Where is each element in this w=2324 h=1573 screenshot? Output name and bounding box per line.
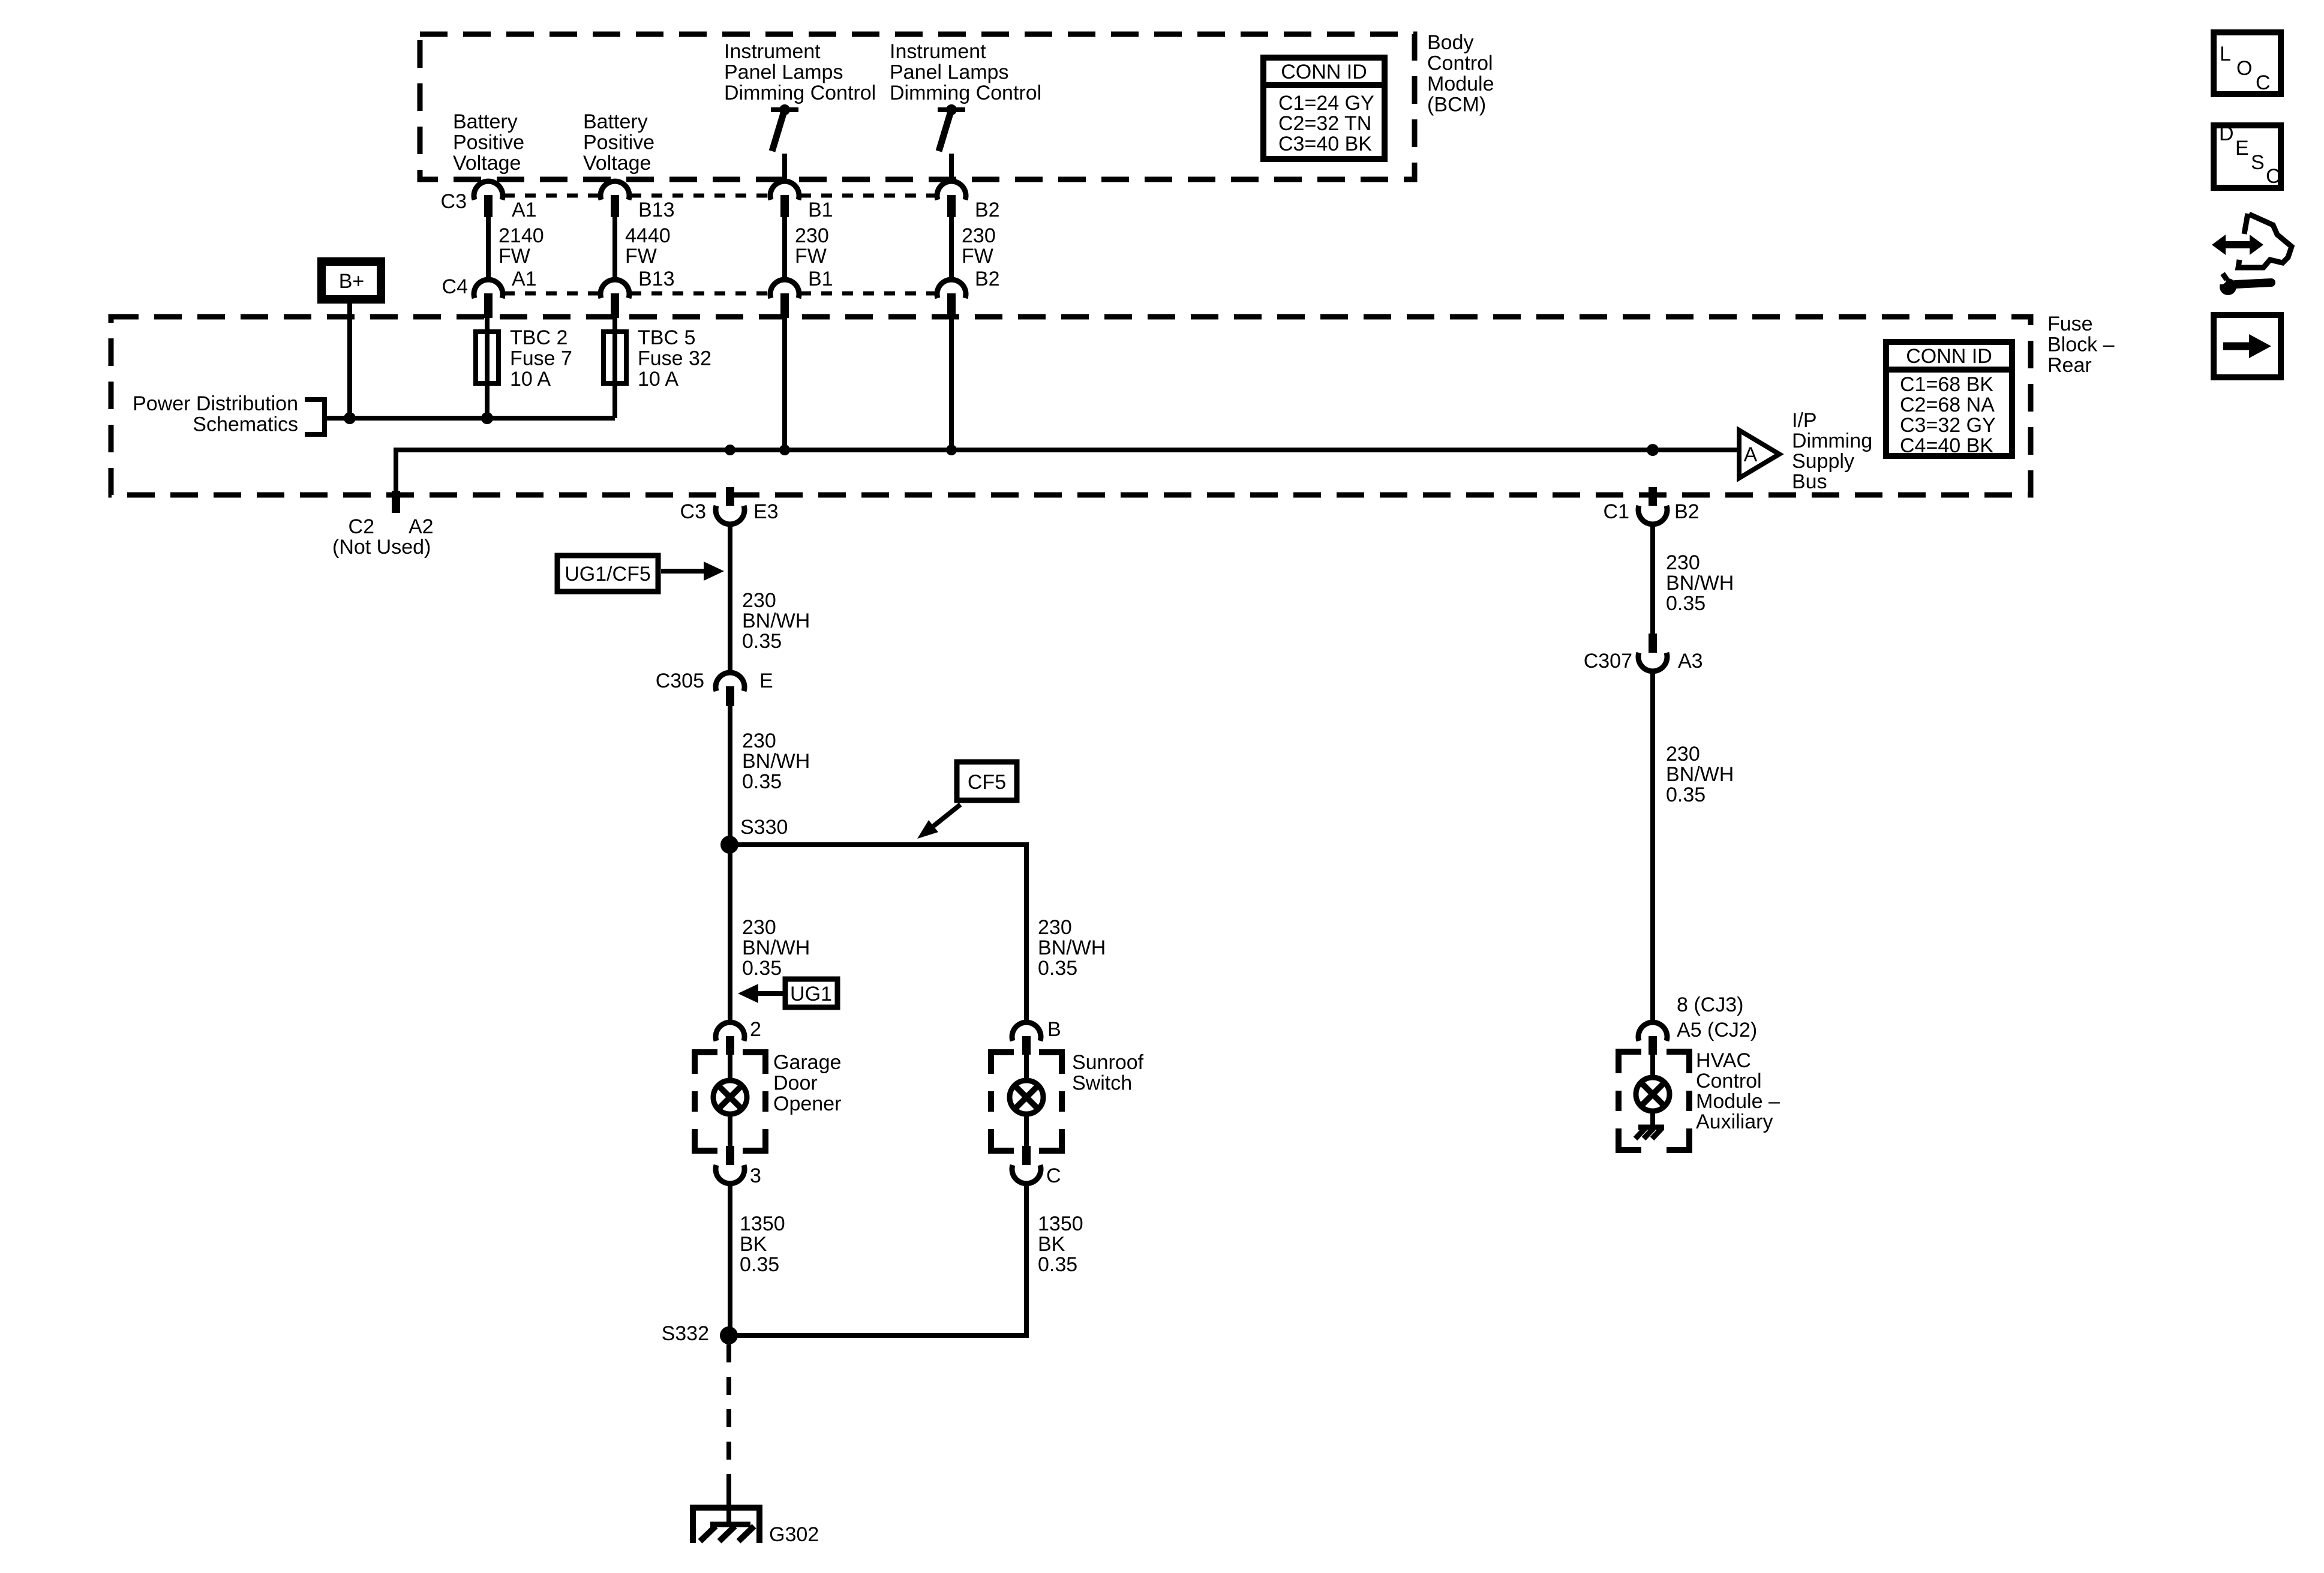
svg-text:230: 230 bbox=[1666, 743, 1700, 766]
svg-text:C3: C3 bbox=[680, 500, 706, 523]
UG1/CF5 reference box bbox=[557, 556, 658, 592]
wire label 230 BN/WH 0.35 (garage) bbox=[742, 916, 810, 980]
svg-text:C4=40 BK: C4=40 BK bbox=[1900, 434, 1993, 457]
svg-text:0.35: 0.35 bbox=[1038, 957, 1077, 980]
connector row2 B13 bbox=[600, 280, 629, 318]
svg-text:Supply: Supply bbox=[1792, 450, 1854, 473]
label S330 bbox=[740, 816, 788, 839]
label Battery Positive Voltage (left) bbox=[453, 110, 524, 175]
pin C2/A2 not used bbox=[392, 491, 400, 513]
DESC letters bbox=[2219, 122, 2281, 188]
fuse block CONN ID text bbox=[1900, 345, 1996, 457]
svg-text:Switch: Switch bbox=[1072, 1072, 1132, 1095]
svg-text:Voltage: Voltage bbox=[453, 152, 521, 175]
svg-text:A1: A1 bbox=[512, 199, 537, 221]
svg-text:230: 230 bbox=[1038, 916, 1072, 939]
svg-text:FW: FW bbox=[625, 245, 657, 268]
CF5 text bbox=[968, 771, 1006, 794]
dimmer switch symbol 1 bbox=[771, 104, 798, 182]
svg-text:S330: S330 bbox=[740, 816, 788, 839]
connector row1 B13 bbox=[600, 181, 629, 217]
label C1 B2 bbox=[1604, 500, 1700, 523]
fuse TBC 5 Fuse 32 10 A bbox=[603, 332, 626, 383]
S330 branch wire to sunroof bbox=[729, 845, 1026, 1022]
wire B2 to dimming bus bbox=[949, 318, 954, 450]
svg-text:1350: 1350 bbox=[1038, 1212, 1083, 1235]
svg-text:10 A: 10 A bbox=[638, 368, 678, 391]
svg-text:Module: Module bbox=[1427, 73, 1494, 95]
svg-text:C2=68 NA: C2=68 NA bbox=[1900, 394, 1995, 416]
label 8 (CJ3) A5 (CJ2) bbox=[1677, 993, 1757, 1041]
svg-text:C305: C305 bbox=[656, 670, 704, 692]
wire garage lamp to pin 3 bbox=[728, 1114, 732, 1147]
svg-text:HVAC: HVAC bbox=[1696, 1049, 1751, 1072]
fuse block CONN ID divider bbox=[1883, 367, 2015, 373]
UG1 text bbox=[790, 983, 832, 1005]
junction dot B+ feed bbox=[344, 412, 356, 424]
wire from B+ down bbox=[347, 304, 352, 418]
UG1/CF5 text bbox=[565, 563, 651, 586]
junction dot B1 bus bbox=[779, 445, 790, 455]
wire label 1350 BK 0.35 (sunroof) bbox=[1038, 1212, 1083, 1276]
UG1 reference box bbox=[785, 979, 837, 1007]
wire sunroof lamp to pin C bbox=[1024, 1114, 1029, 1147]
pin C1 at fuse block exit bbox=[1649, 487, 1657, 506]
wire 3 to S332 bbox=[728, 1184, 732, 1335]
svg-text:CONN ID: CONN ID bbox=[1906, 345, 1992, 368]
svg-text:C1=68 BK: C1=68 BK bbox=[1900, 373, 1993, 396]
svg-text:G302: G302 bbox=[769, 1523, 819, 1546]
wire A1 row1-row2 bbox=[486, 217, 491, 280]
svg-text:B+: B+ bbox=[339, 270, 365, 293]
svg-text:0.35: 0.35 bbox=[742, 770, 782, 793]
ground lead wire bbox=[726, 1488, 731, 1526]
garage door opener dashed box bbox=[695, 1052, 765, 1151]
sunroof switch dashed box bbox=[991, 1052, 1062, 1151]
connector row2 B2 bbox=[937, 280, 966, 318]
svg-text:Power Distribution: Power Distribution bbox=[133, 392, 298, 415]
svg-text:Panel Lamps: Panel Lamps bbox=[724, 61, 843, 84]
HVAC control module dashed box bbox=[1619, 1052, 1689, 1150]
svg-text:FW: FW bbox=[795, 245, 827, 268]
wire label 1350 BK 0.35 (garage) bbox=[740, 1212, 785, 1276]
svg-text:0.35: 0.35 bbox=[742, 630, 782, 653]
row2 pin labels bbox=[442, 268, 1000, 298]
wire into sunroof lamp bbox=[1024, 1055, 1029, 1080]
wire label 4440 FW bbox=[625, 224, 671, 268]
svg-text:B2: B2 bbox=[975, 268, 1000, 290]
connector 2 (garage door opener) bbox=[716, 1022, 744, 1055]
svg-text:C2: C2 bbox=[349, 515, 374, 538]
svg-text:C: C bbox=[1046, 1164, 1061, 1187]
wire B13 row1-row2 bbox=[612, 217, 617, 280]
svg-text:A1: A1 bbox=[512, 268, 537, 290]
svg-text:C: C bbox=[2256, 71, 2271, 94]
wire into HVAC lamp bbox=[1650, 1055, 1655, 1078]
svg-text:C1=24 GY: C1=24 GY bbox=[1278, 92, 1374, 115]
svg-text:B1: B1 bbox=[808, 268, 833, 290]
svg-text:Opener: Opener bbox=[773, 1092, 841, 1115]
svg-text:0.35: 0.35 bbox=[1666, 784, 1706, 806]
wire label 230 FW (B2) bbox=[962, 224, 996, 268]
svg-text:230: 230 bbox=[795, 224, 829, 247]
svg-text:0.35: 0.35 bbox=[1038, 1253, 1077, 1276]
B+ box bbox=[322, 262, 381, 299]
svg-text:C3: C3 bbox=[441, 190, 467, 213]
label 2 bbox=[750, 1018, 761, 1041]
wire C305 to S330 bbox=[728, 706, 732, 845]
svg-text:Instrument: Instrument bbox=[890, 40, 986, 63]
svg-text:C3=40 BK: C3=40 BK bbox=[1278, 133, 1372, 155]
CF5 arrow bbox=[917, 804, 960, 839]
svg-text:4440: 4440 bbox=[625, 224, 671, 247]
LOC letters bbox=[2220, 43, 2271, 94]
svg-text:BN/WH: BN/WH bbox=[1666, 763, 1734, 786]
wire label 230 BN/WH 0.35 (right upper) bbox=[1666, 551, 1734, 615]
dimmer switch symbol 2 bbox=[938, 104, 965, 182]
svg-text:B1: B1 bbox=[808, 199, 833, 221]
BCM connector row 1 dashed line bbox=[504, 194, 936, 198]
wire HVAC lamp to ground bbox=[1650, 1111, 1655, 1127]
svg-text:Dimming: Dimming bbox=[1792, 430, 1872, 452]
fuse TBC 2 Fuse 7 10 A bbox=[476, 332, 499, 383]
wire label 230 BN/WH 0.35 (mid left) bbox=[742, 730, 810, 793]
connector C305/E bbox=[716, 673, 744, 706]
svg-text:2: 2 bbox=[750, 1018, 761, 1041]
svg-text:Voltage: Voltage bbox=[583, 152, 651, 175]
svg-text:D: D bbox=[2219, 122, 2234, 145]
label A in triangle bbox=[1744, 443, 1758, 466]
label HVAC Control Module Auxiliary bbox=[1696, 1049, 1780, 1133]
B+ label bbox=[339, 270, 365, 293]
svg-text:C4: C4 bbox=[442, 275, 468, 298]
label Fuse Block Rear bbox=[2047, 313, 2115, 377]
svg-text:Schematics: Schematics bbox=[193, 413, 298, 436]
svg-text:UG1: UG1 bbox=[790, 983, 832, 1005]
svg-text:FW: FW bbox=[962, 245, 993, 268]
svg-text:B: B bbox=[1047, 1018, 1061, 1041]
svg-text:Bus: Bus bbox=[1792, 470, 1827, 493]
LOC icon box bbox=[2214, 32, 2281, 94]
svg-text:Battery: Battery bbox=[583, 110, 648, 133]
svg-text:10 A: 10 A bbox=[510, 368, 551, 391]
BCM CONN ID text bbox=[1278, 61, 1374, 155]
wire C to S332 bbox=[729, 1184, 1026, 1335]
svg-text:Sunroof: Sunroof bbox=[1072, 1051, 1144, 1074]
svg-text:B13: B13 bbox=[638, 199, 675, 221]
sunroof connector C bbox=[1012, 1146, 1041, 1184]
svg-text:Garage: Garage bbox=[773, 1051, 841, 1074]
wire E3 to C305 bbox=[728, 525, 732, 673]
wire C1 to C307 bbox=[1650, 525, 1655, 634]
Body Control Module (BCM) dashed box bbox=[420, 34, 1415, 179]
svg-text:C3=32 GY: C3=32 GY bbox=[1900, 414, 1996, 437]
sunroof lamp symbol bbox=[1010, 1080, 1043, 1114]
svg-text:230: 230 bbox=[1666, 551, 1700, 574]
connector row1 B1 bbox=[770, 181, 799, 217]
svg-text:Auxiliary: Auxiliary bbox=[1696, 1110, 1773, 1133]
svg-text:C: C bbox=[2266, 165, 2281, 188]
svg-text:Control: Control bbox=[1427, 52, 1493, 75]
svg-text:Rear: Rear bbox=[2047, 354, 2092, 377]
triangle A (I/P dimming supply bus) bbox=[1739, 430, 1779, 478]
splice S330 bbox=[720, 836, 738, 854]
svg-text:B2: B2 bbox=[975, 199, 1000, 221]
svg-text:Fuse: Fuse bbox=[2047, 313, 2093, 335]
label 3 bbox=[750, 1164, 761, 1187]
wire B1 to dimming bus bbox=[782, 318, 787, 450]
svg-text:A5 (CJ2): A5 (CJ2) bbox=[1677, 1019, 1757, 1041]
service icon wrench bbox=[2217, 274, 2271, 295]
service icon panel outline bbox=[2238, 214, 2292, 268]
I/P dimming supply bus wire bbox=[396, 450, 1737, 506]
Fuse Block Rear dashed box bbox=[111, 317, 2031, 495]
pin E3 at fuse block exit bbox=[726, 487, 734, 506]
connector C1/B2 cup bbox=[1638, 506, 1667, 524]
svg-text:Fuse 7: Fuse 7 bbox=[510, 347, 572, 370]
wire B2 row1-row2 bbox=[949, 217, 954, 280]
HVAC internal ground bbox=[1635, 1127, 1664, 1139]
svg-text:S: S bbox=[2251, 151, 2265, 174]
svg-text:C1: C1 bbox=[1604, 500, 1629, 523]
junction dot bus at E3 branch bbox=[725, 445, 735, 455]
svg-text:FW: FW bbox=[499, 245, 530, 268]
svg-text:3: 3 bbox=[750, 1164, 761, 1187]
svg-text:Instrument: Instrument bbox=[724, 40, 821, 63]
label C305 E bbox=[656, 670, 773, 692]
HVAC lamp symbol bbox=[1636, 1077, 1670, 1111]
svg-text:I/P: I/P bbox=[1792, 409, 1817, 432]
junction dot B2 bus bbox=[946, 445, 957, 455]
HVAC connector A5 bbox=[1638, 1022, 1667, 1055]
wire C307 to HVAC bbox=[1650, 672, 1655, 1022]
svg-text:BK: BK bbox=[1038, 1233, 1065, 1256]
svg-text:O: O bbox=[2236, 57, 2252, 80]
svg-text:230: 230 bbox=[962, 224, 996, 247]
svg-text:A: A bbox=[1744, 443, 1758, 466]
svg-text:Door: Door bbox=[773, 1072, 818, 1095]
UG1/CF5 arrow bbox=[661, 562, 724, 581]
label C307 A3 bbox=[1584, 650, 1703, 673]
svg-text:Block –: Block – bbox=[2047, 334, 2115, 356]
svg-text:2140: 2140 bbox=[499, 224, 544, 247]
svg-text:Battery: Battery bbox=[453, 110, 518, 133]
svg-text:A2: A2 bbox=[409, 515, 434, 538]
label B bbox=[1047, 1018, 1061, 1041]
service icon double arrow bbox=[2212, 235, 2263, 255]
wire label 230 BN/WH 0.35 (upper left) bbox=[742, 589, 810, 653]
svg-text:L: L bbox=[2220, 43, 2231, 65]
svg-text:Body: Body bbox=[1427, 31, 1474, 54]
svg-text:S332: S332 bbox=[662, 1322, 709, 1345]
svg-text:Module –: Module – bbox=[1696, 1090, 1780, 1113]
svg-text:Control: Control bbox=[1696, 1070, 1762, 1092]
label C bbox=[1046, 1164, 1061, 1187]
svg-text:(Not Used): (Not Used) bbox=[332, 536, 431, 559]
svg-text:Fuse 32: Fuse 32 bbox=[638, 347, 711, 370]
label Instrument Panel Lamps Dimming Control (right) bbox=[890, 40, 1041, 104]
dashed ground wire bbox=[726, 1344, 731, 1488]
svg-text:TBC 5: TBC 5 bbox=[638, 326, 695, 349]
row1 pin labels bbox=[441, 190, 1000, 221]
label I/P Dimming Supply Bus bbox=[1792, 409, 1872, 493]
svg-text:230: 230 bbox=[742, 730, 776, 752]
svg-text:E3: E3 bbox=[753, 500, 779, 523]
label G302 bbox=[769, 1523, 819, 1546]
svg-text:BN/WH: BN/WH bbox=[1038, 936, 1106, 959]
label Body Control Module (BCM) bbox=[1427, 31, 1494, 116]
svg-text:BN/WH: BN/WH bbox=[1666, 572, 1734, 595]
connector C307/A3 bbox=[1638, 634, 1667, 671]
wire label 2140 FW bbox=[499, 224, 544, 268]
svg-text:0.35: 0.35 bbox=[742, 957, 782, 980]
svg-text:230: 230 bbox=[742, 916, 776, 939]
wire label 230 BN/WH 0.35 (right lower) bbox=[1666, 743, 1734, 806]
label Garage Door Opener bbox=[773, 1051, 841, 1115]
svg-text:CF5: CF5 bbox=[968, 771, 1006, 794]
fuse2 label bbox=[638, 326, 711, 391]
wire B1 row1-row2 bbox=[782, 217, 787, 280]
svg-text:C307: C307 bbox=[1584, 650, 1632, 673]
wire S330 down to garage bbox=[728, 845, 732, 1022]
wire into garage lamp bbox=[728, 1055, 732, 1080]
svg-text:(BCM): (BCM) bbox=[1427, 94, 1486, 116]
svg-text:230: 230 bbox=[742, 589, 776, 612]
junction dot fuse1 bbox=[481, 412, 493, 424]
label Power Distribution Schematics bbox=[133, 392, 298, 436]
svg-text:TBC 2: TBC 2 bbox=[510, 326, 568, 349]
UG1 arrow bbox=[738, 984, 783, 1003]
CF5 reference box bbox=[957, 762, 1017, 800]
connector C3/E3 cup bbox=[716, 506, 744, 524]
wire fuse2 column bbox=[612, 318, 617, 418]
sunroof connector B bbox=[1012, 1022, 1041, 1055]
label Battery Positive Voltage (right) bbox=[583, 110, 654, 175]
svg-text:0.35: 0.35 bbox=[740, 1253, 779, 1276]
fuse1 label bbox=[510, 326, 572, 391]
connector row2 B1 bbox=[770, 280, 799, 318]
label Instrument Panel Lamps Dimming Control (left) bbox=[724, 40, 876, 104]
label C2 A2 (Not Used) bbox=[332, 515, 434, 559]
svg-text:A3: A3 bbox=[1678, 650, 1703, 673]
wire label 230 FW (B1) bbox=[795, 224, 829, 268]
fuse block CONN ID table box bbox=[1886, 342, 2012, 456]
connector row1 B2 bbox=[937, 181, 966, 217]
wire fuse1 column bbox=[485, 318, 490, 418]
label Sunroof Switch bbox=[1072, 1051, 1144, 1095]
BCM CONN ID table box bbox=[1263, 58, 1385, 159]
svg-text:UG1/CF5: UG1/CF5 bbox=[565, 563, 651, 586]
svg-text:Positive: Positive bbox=[583, 131, 654, 154]
svg-text:BN/WH: BN/WH bbox=[742, 936, 810, 959]
bracket for Power Distribution bbox=[305, 400, 325, 434]
svg-text:CONN ID: CONN ID bbox=[1281, 61, 1367, 83]
splice S332 bbox=[720, 1326, 738, 1344]
svg-text:Dimming Control: Dimming Control bbox=[890, 82, 1041, 104]
connector C3 pin A1 (row1) bbox=[474, 181, 503, 217]
power distribution feed line bbox=[325, 416, 615, 421]
wire label 230 BN/WH 0.35 (sunroof) bbox=[1038, 916, 1106, 980]
DESC icon box bbox=[2214, 125, 2281, 188]
svg-text:BN/WH: BN/WH bbox=[742, 610, 810, 632]
svg-text:BK: BK bbox=[740, 1233, 767, 1256]
label C3 E3 bbox=[680, 500, 779, 523]
svg-text:1350: 1350 bbox=[740, 1212, 785, 1235]
label S332 bbox=[662, 1322, 709, 1345]
svg-text:B2: B2 bbox=[1674, 500, 1700, 523]
svg-text:0.35: 0.35 bbox=[1666, 592, 1706, 615]
connector C4 pin A1 (row2) bbox=[474, 280, 503, 318]
svg-text:E: E bbox=[2235, 137, 2249, 160]
junction dot bus at C1 branch bbox=[1647, 444, 1659, 456]
svg-text:8 (CJ3): 8 (CJ3) bbox=[1677, 993, 1743, 1016]
svg-text:C2=32 TN: C2=32 TN bbox=[1278, 112, 1371, 135]
garage lamp symbol bbox=[713, 1080, 747, 1114]
BCM CONN ID divider bbox=[1260, 82, 1388, 88]
svg-text:B13: B13 bbox=[638, 268, 675, 290]
connector 3 below garage bbox=[716, 1146, 744, 1184]
ground G302 symbol bbox=[693, 1508, 759, 1543]
connector row 2 dashed line bbox=[504, 292, 936, 296]
svg-text:E: E bbox=[759, 670, 773, 692]
forward arrow bbox=[2223, 334, 2271, 358]
svg-text:Panel Lamps: Panel Lamps bbox=[890, 61, 1008, 84]
svg-text:Positive: Positive bbox=[453, 131, 524, 154]
svg-text:BN/WH: BN/WH bbox=[742, 750, 810, 773]
forward arrow icon box bbox=[2214, 315, 2281, 377]
svg-text:Dimming Control: Dimming Control bbox=[724, 82, 876, 104]
